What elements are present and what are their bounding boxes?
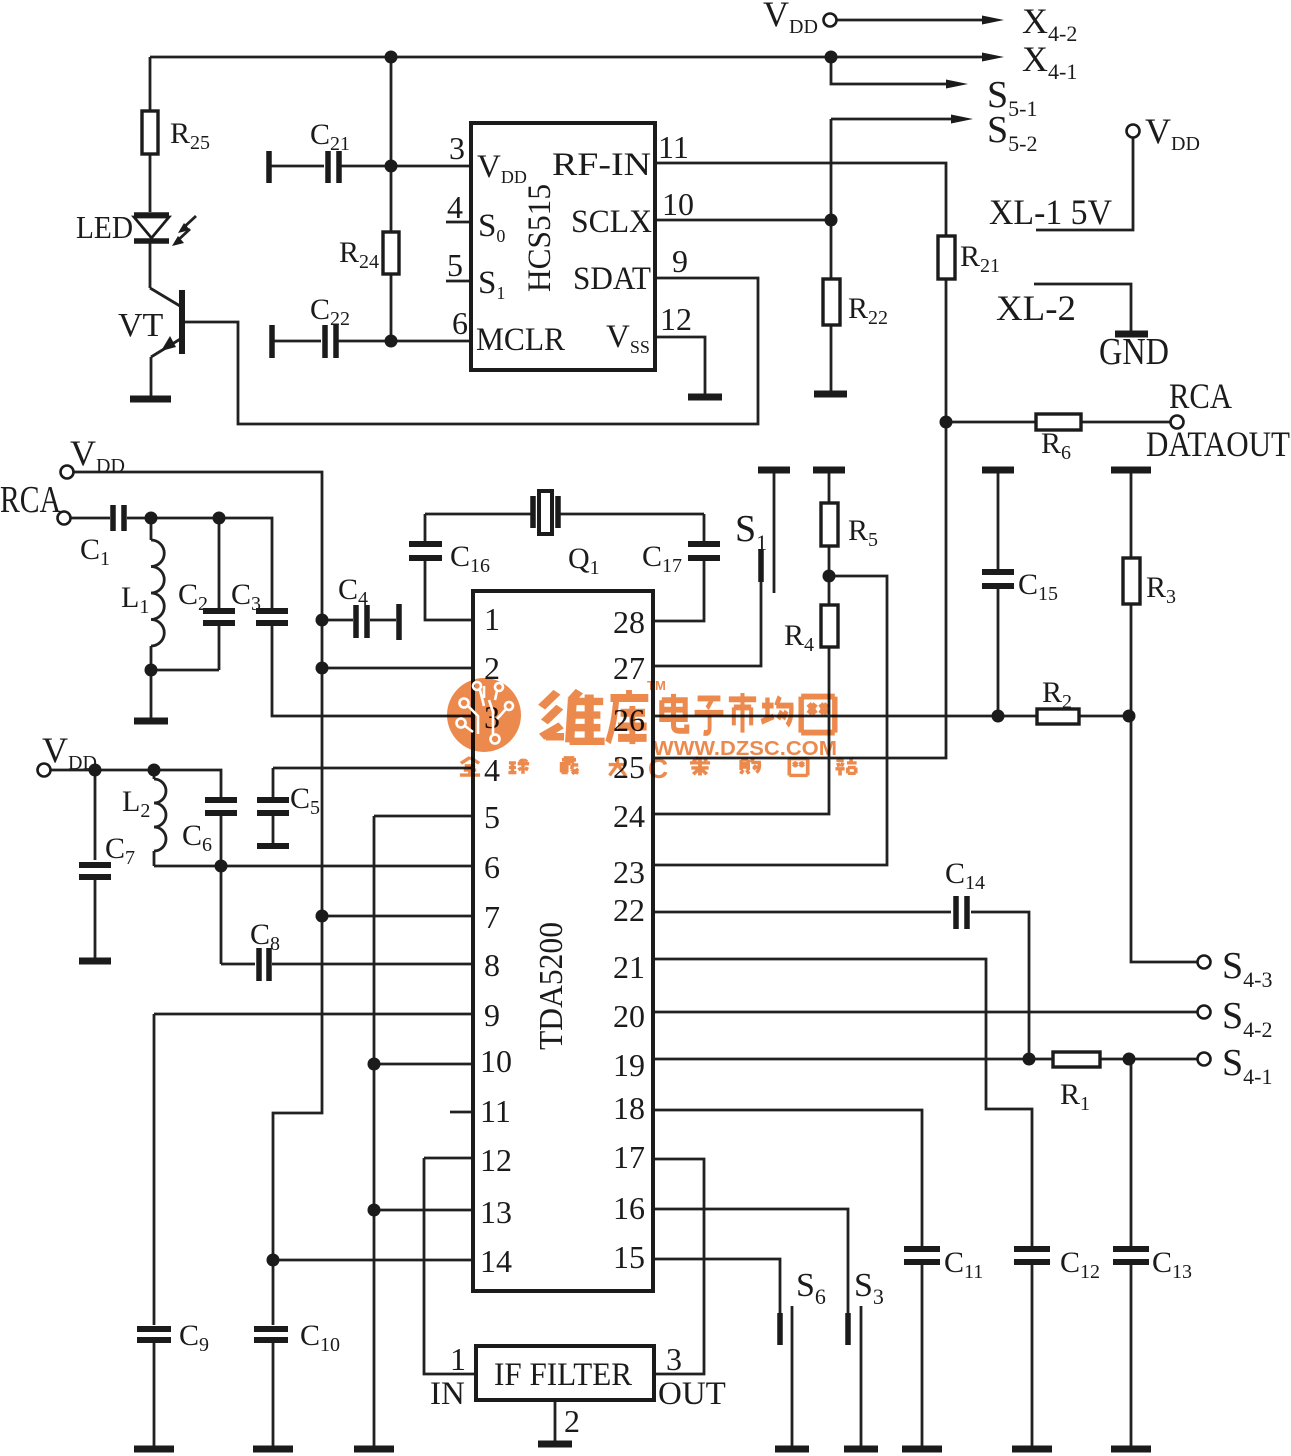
svg-text:C: C bbox=[648, 753, 668, 784]
svg-text:RCA: RCA bbox=[0, 479, 61, 521]
svg-text:DATAOUT: DATAOUT bbox=[1146, 424, 1290, 464]
svg-text:12: 12 bbox=[480, 1142, 512, 1178]
svg-text:22: 22 bbox=[613, 892, 645, 928]
svg-text:4: 4 bbox=[484, 752, 500, 788]
svg-text:SCLX: SCLX bbox=[571, 204, 652, 240]
svg-text:GND: GND bbox=[1099, 331, 1169, 373]
svg-text:3: 3 bbox=[449, 130, 465, 166]
svg-text:18: 18 bbox=[613, 1090, 645, 1126]
svg-text:VT: VT bbox=[118, 307, 164, 344]
svg-text:24: 24 bbox=[613, 798, 645, 834]
svg-text:OUT: OUT bbox=[658, 1376, 726, 1412]
svg-text:16: 16 bbox=[613, 1190, 645, 1226]
svg-text:XL-1 5V: XL-1 5V bbox=[989, 192, 1112, 232]
svg-text:9: 9 bbox=[672, 243, 688, 279]
svg-text:MCLR: MCLR bbox=[476, 322, 565, 358]
svg-text:7: 7 bbox=[484, 899, 500, 935]
svg-text:21: 21 bbox=[613, 949, 645, 985]
svg-text:10: 10 bbox=[480, 1043, 512, 1079]
svg-text:XL-2: XL-2 bbox=[996, 288, 1076, 328]
svg-text:11: 11 bbox=[658, 129, 689, 165]
svg-text:13: 13 bbox=[480, 1194, 512, 1230]
svg-text:19: 19 bbox=[613, 1047, 645, 1083]
svg-text:1: 1 bbox=[484, 601, 500, 637]
svg-text:RCA: RCA bbox=[1169, 376, 1232, 416]
svg-text:IF FILTER: IF FILTER bbox=[494, 1357, 632, 1393]
svg-text:27: 27 bbox=[613, 650, 645, 686]
svg-text:23: 23 bbox=[613, 854, 645, 890]
svg-text:5: 5 bbox=[484, 799, 500, 835]
svg-text:5: 5 bbox=[447, 247, 463, 283]
svg-text:8: 8 bbox=[484, 947, 500, 983]
svg-text:TM: TM bbox=[647, 678, 666, 693]
svg-text:10: 10 bbox=[662, 186, 694, 222]
svg-text:11: 11 bbox=[480, 1093, 511, 1129]
svg-text:1: 1 bbox=[450, 1341, 466, 1377]
svg-text:3: 3 bbox=[666, 1341, 682, 1377]
svg-text:HCS515: HCS515 bbox=[522, 184, 558, 292]
svg-text:15: 15 bbox=[613, 1239, 645, 1275]
svg-text:6: 6 bbox=[452, 305, 468, 341]
svg-text:2: 2 bbox=[564, 1403, 580, 1439]
svg-text:RF-IN: RF-IN bbox=[552, 147, 651, 183]
svg-text:TDA5200: TDA5200 bbox=[533, 922, 570, 1050]
svg-text:12: 12 bbox=[660, 301, 692, 337]
svg-text:6: 6 bbox=[484, 849, 500, 885]
svg-text:IN: IN bbox=[430, 1376, 465, 1412]
svg-text:14: 14 bbox=[480, 1243, 512, 1279]
svg-text:9: 9 bbox=[484, 997, 500, 1033]
svg-text:4: 4 bbox=[447, 189, 463, 225]
svg-text:20: 20 bbox=[613, 998, 645, 1034]
svg-text:28: 28 bbox=[613, 604, 645, 640]
svg-text:SDAT: SDAT bbox=[573, 261, 651, 297]
svg-text:LED: LED bbox=[76, 209, 133, 245]
svg-text:17: 17 bbox=[613, 1139, 645, 1175]
svg-text:WWW.DZSC.COM: WWW.DZSC.COM bbox=[653, 738, 837, 760]
